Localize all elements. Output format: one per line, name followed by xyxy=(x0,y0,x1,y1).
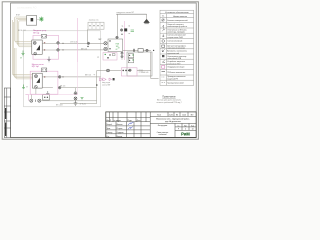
wire block1 to meter column top xyxy=(59,42,104,44)
aux automat xyxy=(41,34,46,38)
svg-text:дер. Андреевское: дер. Андреевское xyxy=(165,120,181,123)
svg-text:навесного исполнения: навесного исполнения xyxy=(167,48,185,50)
svg-text:кабель ВВГ: кабель ВВГ xyxy=(102,84,111,86)
small meterbox with dots xyxy=(43,95,50,100)
svg-text:защитный PE: защитный PE xyxy=(167,77,178,80)
svg-text:согласно требований ПУЭ изд.7: согласно требований ПУЭ изд.7 xyxy=(156,101,181,104)
svg-text:энергии актив. РиМ: энергии актив. РиМ xyxy=(167,37,183,39)
junction on trunk xyxy=(116,36,118,38)
revision columns xyxy=(109,112,111,122)
svg-text:М4: М4 xyxy=(176,114,178,116)
svg-text:Л-ов: Л-ов xyxy=(191,125,194,127)
svg-text:Граница балансовой: Граница балансовой xyxy=(167,81,183,84)
svg-text:ЗУ R=30: ЗУ R=30 xyxy=(80,103,86,105)
svg-text:воздушная линия ВЛ: воздушная линия ВЛ xyxy=(116,12,134,14)
wire down and to legend xyxy=(151,52,159,79)
svg-text:Условные обозначения: Условные обозначения xyxy=(165,12,189,14)
svg-text:линии: линии xyxy=(139,72,144,74)
meter box xyxy=(108,39,123,52)
svg-text:Оборудование общее: Оборудование общее xyxy=(167,67,184,69)
wire block1 to meter column bottom xyxy=(59,49,104,51)
regrounding branch xyxy=(75,88,77,92)
connector right of block2 xyxy=(58,76,61,79)
small pink symbols below feeder xyxy=(99,78,111,81)
title block xyxy=(106,112,196,137)
svg-text:ВУ-0,4кВ: ВУ-0,4кВ xyxy=(18,30,26,32)
wire meter to uzo pair xyxy=(121,52,123,60)
svg-text:ЩУ 1ф: ЩУ 1ф xyxy=(32,65,39,68)
bottom switch row xyxy=(28,95,30,101)
meter output wire to cabinet xyxy=(123,49,151,51)
svg-text:снабжения: снабжения xyxy=(158,134,166,136)
svg-text:однополюсный: однополюсный xyxy=(167,52,179,55)
green bars right of marker xyxy=(131,30,134,32)
drawing frame xyxy=(11,3,197,138)
big grey enclosure xyxy=(24,31,101,107)
svg-text:отключения УЗО: отключения УЗО xyxy=(167,63,181,65)
svg-text:12-04: 12-04 xyxy=(182,114,186,116)
boundary marker xyxy=(120,28,127,31)
wire stubs inside block2 xyxy=(42,77,58,88)
svg-text:Схема электро-: Схема электро- xyxy=(157,132,169,134)
arrester branch xyxy=(146,14,148,19)
cabinet junction xyxy=(129,69,131,71)
svg-text:зажимы отв.: зажимы отв. xyxy=(89,20,100,22)
svg-text:бп: бп xyxy=(128,26,130,28)
green insulator symbol xyxy=(39,17,43,22)
block 1 pink box xyxy=(33,35,59,59)
pole box B xyxy=(27,16,37,26)
paper edge xyxy=(2,2,198,139)
svg-text:Том 4: Том 4 xyxy=(157,114,161,116)
svg-text:Лист: Лист xyxy=(184,125,188,127)
svg-text:Дата: Дата xyxy=(137,120,141,122)
wire to regrounding xyxy=(60,88,97,104)
overhead line xyxy=(116,13,146,15)
meter input switches xyxy=(104,42,107,51)
series comp 3 xyxy=(146,49,148,51)
svg-text:Пров.: Пров. xyxy=(106,128,111,130)
svg-text:ВВГ 3х6: ВВГ 3х6 xyxy=(85,75,91,77)
legend symbols xyxy=(162,19,166,83)
ground electrode xyxy=(74,100,78,106)
svg-text:эо: эо xyxy=(128,33,130,35)
svg-text:Примечание: Примечание xyxy=(162,97,176,99)
sheet background xyxy=(0,0,200,141)
breaker QF2 xyxy=(35,75,38,78)
block 1 inner breaker box xyxy=(32,40,42,54)
connector symbols right of block1 xyxy=(57,42,60,52)
boundary pink line xyxy=(124,21,126,60)
svg-text:согласовано АО: согласовано АО xyxy=(17,6,36,10)
house feeder line xyxy=(97,70,122,72)
svg-text:Фасад дома: Фасад дома xyxy=(158,124,168,127)
left stamp strip xyxy=(4,88,10,138)
svg-text:заземляющим устройств.: заземляющим устройств. xyxy=(167,25,187,28)
svg-text:Р: Р xyxy=(178,129,179,131)
green ground symbol left xyxy=(21,51,24,56)
svg-text:№ докум.: № докум. xyxy=(114,119,122,122)
wire bundle to lower block xyxy=(12,20,32,79)
pink feeder box xyxy=(121,68,137,76)
switch on feeder xyxy=(107,69,110,72)
legend table xyxy=(160,10,194,85)
ground symbol under block1 xyxy=(47,57,50,62)
svg-text:Петров: Петров xyxy=(117,128,123,130)
svg-text:Иванов: Иванов xyxy=(117,124,123,126)
blue signatures xyxy=(128,122,134,125)
svg-text:Сидоров: Сидоров xyxy=(117,132,124,134)
wire stubs inside block1 xyxy=(42,43,56,50)
svg-text:нелинейный ОПН: нелинейный ОПН xyxy=(167,57,182,60)
wire bottom row to right xyxy=(41,100,97,102)
wire block2 output xyxy=(61,76,101,78)
svg-text:ввод в дом: ввод в дом xyxy=(102,82,110,84)
green ground mark near block2 xyxy=(22,85,25,89)
svg-text:ВВГ 2х6: ВВГ 2х6 xyxy=(81,48,87,50)
svg-text:Разраб.: Разраб. xyxy=(106,124,113,126)
cabinet grey box xyxy=(127,52,152,76)
left stamp vertical text xyxy=(5,108,6,136)
svg-text:14: 14 xyxy=(192,129,194,131)
svg-text:Счетчик объемный: Счетчик объемный xyxy=(167,40,182,43)
right part xyxy=(150,115,196,117)
series comp 1 xyxy=(133,49,134,52)
svg-text:Подп.: Подп. xyxy=(128,120,133,122)
svg-text:4: 4 xyxy=(185,129,186,131)
svg-text:ПВ 1х6: ПВ 1х6 xyxy=(60,86,65,88)
svg-text:Н.контр.: Н.контр. xyxy=(106,132,113,134)
uzo switch pair xyxy=(121,52,123,58)
svg-text:СИП 2х16: СИП 2х16 xyxy=(70,41,77,43)
wire bundle from pole box down xyxy=(15,17,32,47)
svg-text:ВЛ 0,4кВ: ВЛ 0,4кВ xyxy=(56,105,63,107)
svg-text:самонесущ. проводом: самонесущ. проводом xyxy=(167,32,185,34)
green mark near regrounding xyxy=(81,98,84,100)
svg-text:ВУ 1ф: ВУ 1ф xyxy=(33,31,39,34)
block 2 inner breaker box xyxy=(33,73,43,88)
service drop trunk xyxy=(117,14,119,36)
svg-text:ЗУ: ЗУ xyxy=(26,86,28,88)
svg-text:Комплекс измерительный: Комплекс измерительный xyxy=(167,19,187,22)
svg-text:Московская обл., Одинцовский р: Московская обл., Одинцовский район, xyxy=(156,118,190,121)
svg-text:Наименование: Наименование xyxy=(173,16,188,18)
svg-text:ЗР: ЗР xyxy=(97,57,99,59)
block 2 pink box xyxy=(30,71,58,94)
connector lower on block2 xyxy=(58,86,61,89)
drop wire to switch row xyxy=(32,88,36,99)
svg-text:ГЗШ шина заземления: ГЗШ шина заземления xyxy=(167,72,185,74)
cabinet small modules xyxy=(128,54,133,58)
svg-text:Утв.: Утв. xyxy=(106,136,110,138)
breaker QF1 xyxy=(33,41,36,44)
title block texts xyxy=(106,114,194,137)
svg-text:РиМ: РиМ xyxy=(181,131,190,136)
drop from terminal strip xyxy=(87,29,89,43)
svg-text:Волков: Волков xyxy=(117,136,123,138)
legend texts xyxy=(167,19,187,84)
lower pink utility box xyxy=(103,53,117,60)
junction cluster near meter input xyxy=(87,42,89,44)
series comp 2 xyxy=(138,49,143,53)
